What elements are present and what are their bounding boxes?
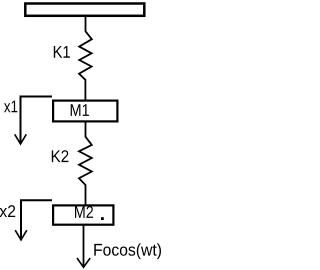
spring K1 (79, 17, 92, 101)
label M2 (75, 206, 93, 218)
spring K2 (79, 122, 92, 205)
mass M2 (53, 205, 113, 224)
label x1 (4, 101, 17, 113)
x1 arrowhead (15, 134, 27, 144)
fixed support block (25, 4, 144, 16)
label x2 (0, 205, 15, 217)
force arrow line (83, 225, 85, 267)
x1 reference line (21, 97, 53, 144)
label K2 (52, 150, 69, 162)
label K1 (54, 46, 70, 58)
force arrowhead (77, 258, 90, 267)
label M1 (71, 104, 89, 116)
label Focos(wt) (94, 243, 161, 259)
x2 arrowhead (15, 230, 27, 240)
dot marker on M2 (101, 217, 104, 220)
x2 reference line (21, 200, 52, 239)
mass M1 (53, 101, 117, 122)
